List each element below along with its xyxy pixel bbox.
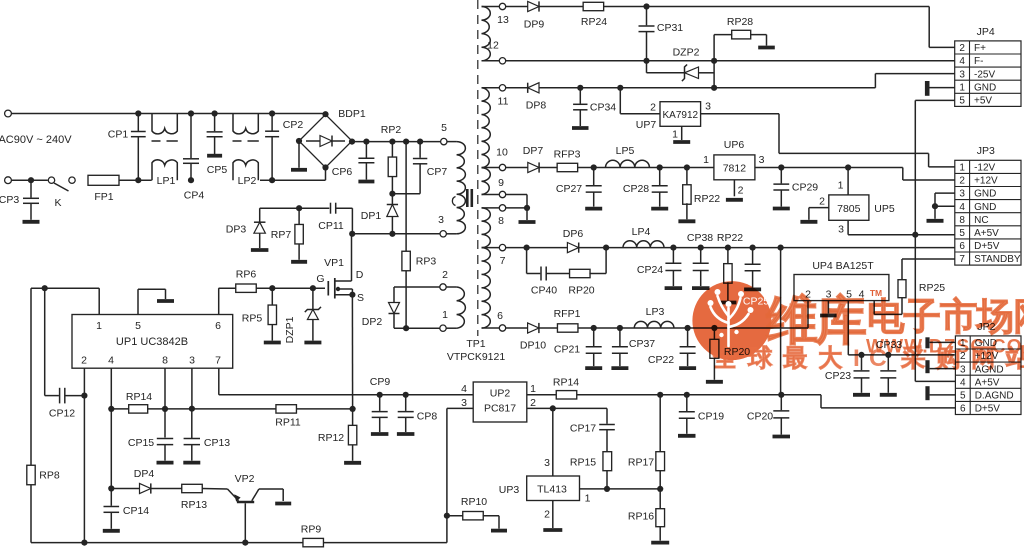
svg-text:CP19: CP19 [698,411,724,423]
wire FP1 to LP1 [119,179,152,181]
svg-text:1: 1 [672,129,678,141]
svg-text:VP1: VP1 [324,257,344,269]
svg-text:3: 3 [189,355,195,367]
svg-text:CP24: CP24 [637,264,663,276]
fuse FP1 [88,175,119,185]
resistor RFP3 [557,163,578,171]
terminal TP1 pin 9 [499,191,505,197]
svg-text:CP1: CP1 [108,129,129,141]
ground pin5 [157,299,174,303]
svg-text:RP11: RP11 [275,417,301,429]
svg-text:CP29: CP29 [792,182,818,194]
inductor LP2 common-mode choke [233,114,258,134]
svg-text:9: 9 [498,177,504,189]
node CP3/neutral junction [28,177,34,183]
wire UP4 pin5 to +5V net [847,301,849,355]
svg-text:6: 6 [959,241,965,252]
capacitor CP20 [780,395,782,410]
svg-text:AC90V ~ 240V: AC90V ~ 240V [0,134,72,146]
ground CP28 [651,207,668,211]
node VP1 source [349,292,355,298]
svg-text:STANDBY: STANDBY [974,254,1021,265]
svg-text:3: 3 [544,457,550,469]
ground CP13 [183,461,200,465]
wire pin5 ground [137,289,139,314]
ic UP1 UC3842B [72,315,233,369]
transformer TP1 secondary winding 8-7-6 [482,208,491,248]
wire DP2 to pin1 [394,327,440,329]
svg-text:CP23: CP23 [825,370,851,382]
svg-text:2: 2 [738,185,744,197]
svg-text:LP4: LP4 [632,226,651,238]
node vcc/CP12 [42,285,48,291]
capacitor CP38 [700,248,702,263]
wire pin10 rail [506,167,714,169]
node DP1 top [389,191,395,197]
ground CP19 [678,434,696,438]
svg-text:CP15: CP15 [128,437,154,449]
ground RP12 [344,461,361,465]
ground CP23 [853,393,870,397]
diode DP9 [528,1,539,11]
svg-text:6: 6 [497,310,503,322]
resistor RP5 [271,288,273,305]
mosfet VP1 [327,281,329,296]
wire bottom rail [31,542,303,544]
node RP22b [725,245,731,251]
svg-text:4: 4 [960,377,966,388]
svg-text:RP6: RP6 [236,269,257,281]
svg-text:UP3: UP3 [499,484,520,496]
node CP22 [685,325,691,331]
svg-text:JP4: JP4 [977,26,995,38]
node pin4 row [108,406,114,412]
svg-text:LP2: LP2 [238,175,257,187]
wire snubber row DP3/RP7/CP11 [260,207,330,209]
svg-text:RP16: RP16 [628,511,654,523]
svg-text:11: 11 [498,96,509,108]
svg-text:3: 3 [960,364,966,375]
svg-text:CP34: CP34 [590,102,616,114]
svg-text:RP15: RP15 [570,457,596,469]
svg-text:2: 2 [81,355,87,367]
svg-text:13: 13 [497,14,509,26]
node bus x406 [403,139,409,145]
ground bridge left corner [298,141,300,168]
wire UP2 pin2 [527,407,607,409]
node RP22 top [684,164,690,170]
svg-text:CP38: CP38 [687,232,713,244]
ground VP2 collector [275,502,291,506]
wire JP3 gnd rows 3-4 [935,192,955,194]
svg-text:DP1: DP1 [361,210,382,222]
transformer TP1 primary winding 5-3 [446,141,456,143]
node CP25 [750,245,756,251]
svg-text:DP3: DP3 [226,224,247,236]
watermark text dianzishichangwang [870,298,904,333]
wire +5V vertical [914,100,916,381]
wire UP5 pin3 output [847,220,849,234]
wire standby to JP3 [902,258,955,260]
svg-text:8: 8 [162,355,168,367]
wire RP3 branch [405,142,407,251]
node JP3 gnd [932,203,938,209]
zener DZP2 [646,61,648,73]
svg-text:DP10: DP10 [520,340,546,352]
node top rail CP2 [269,110,275,116]
wire pin2 to DP2 [394,286,440,288]
wire JP4 GND [930,87,955,89]
ground RP10 [491,529,507,533]
ground CP38 [692,286,710,290]
svg-text:D+5V: D+5V [974,241,1000,252]
terminal TP1 pin 13 [499,3,505,9]
svg-text:DZP1: DZP1 [284,316,296,343]
svg-text:CP37: CP37 [629,338,655,350]
zener DZP1 [312,288,314,309]
wire VP1 source down [351,295,353,409]
svg-text:+5V: +5V [974,95,992,106]
node pin3 row [189,406,195,412]
svg-text:CP28: CP28 [623,183,649,195]
wire D+5V jog to JP2 [820,395,822,408]
svg-text:RP20: RP20 [568,285,594,297]
svg-text:CP4: CP4 [184,190,205,202]
svg-text:3: 3 [959,69,965,80]
svg-text:-25V: -25V [974,69,995,80]
capacitor CP28 [659,168,661,186]
svg-text:5: 5 [135,320,141,332]
wire pin3 down [191,368,193,409]
watermark logo tree [711,296,749,346]
svg-text:8: 8 [959,215,965,226]
svg-text:CP27: CP27 [556,183,582,195]
svg-text:1: 1 [585,493,591,505]
node RP10 [444,513,450,519]
svg-text:CP6: CP6 [332,166,353,178]
svg-text:7805: 7805 [837,203,861,215]
diode DP8 [528,83,539,93]
wire snubber node y194 [392,193,420,195]
node top rail CP1 [135,110,141,116]
resistor RP28 [732,30,751,39]
capacitor CP33 [887,355,889,370]
ground UP4 pin3 [820,314,837,318]
svg-text:6: 6 [960,404,966,415]
svg-text:RFP1: RFP1 [554,308,581,320]
ground CP5 [207,154,222,158]
capacitor CP9 [379,395,381,411]
svg-text:7812: 7812 [723,163,747,175]
capacitor CP11 [330,203,332,214]
svg-text:5: 5 [959,228,965,239]
capacitor CP22 [687,328,689,346]
wire pin7 down feedback rail [218,368,220,395]
svg-text:VTPCK9121: VTPCK9121 [447,351,506,363]
wire pin6 rail [506,327,808,329]
wire UP6 output [755,167,903,169]
ground CP27 [585,207,602,211]
svg-text:RP5: RP5 [242,313,263,325]
resistor RP7 [298,208,300,225]
svg-text:DP8: DP8 [526,100,547,112]
svg-text:DZP2: DZP2 [673,47,700,59]
terminal TP1 pin 1 [440,325,446,331]
svg-text:RP7: RP7 [271,229,292,241]
svg-text:2: 2 [442,269,448,281]
node snubber right [603,245,609,251]
node RP15 bottom [604,486,610,492]
wire F+ drop to JP4 [928,7,930,48]
ground CP8 [397,432,415,436]
ground CP25 [744,287,761,291]
node CP7 on bus [417,139,423,145]
svg-text:DP9: DP9 [524,19,545,31]
svg-text:RP28: RP28 [727,16,753,28]
svg-text:GND: GND [974,82,996,93]
svg-text:UP7: UP7 [636,119,657,131]
node CP37 [617,325,623,331]
svg-text:10: 10 [496,147,508,159]
svg-text:CP9: CP9 [370,376,391,388]
ground CP37 [611,366,628,370]
wire gate row [219,287,325,289]
resistor RP15 [603,452,612,471]
svg-text:4: 4 [461,383,467,395]
resistor RP22 secondary [727,248,729,265]
svg-text:2: 2 [530,397,536,409]
capacitor CP25 [752,248,754,264]
node CP31 top [643,3,649,9]
diode DP7 [528,162,539,172]
node CP9 [377,392,383,398]
optocoupler UP2 PC817 [473,382,527,422]
capacitor CP12 [44,288,46,395]
svg-text:CP25: CP25 [743,296,769,308]
wire CP40/RP20 bypass [526,248,528,274]
ground CP33 [880,393,897,397]
ground CP21 [585,366,602,370]
watermark logo circle [692,281,771,360]
ic UP7 KA7912 [660,102,701,127]
svg-text:DP7: DP7 [523,145,544,157]
svg-text:RP2: RP2 [381,124,402,136]
svg-text:CP3: CP3 [0,194,19,206]
node CP21 [591,325,597,331]
node pin8 tap [524,205,530,211]
svg-text:G: G [316,273,324,285]
ground CP9 [371,432,389,436]
svg-text:LP1: LP1 [157,175,176,187]
svg-text:UP2: UP2 [490,388,511,400]
transformer TP1 phasing arc [452,197,455,206]
resistor RFP1 [557,324,578,332]
svg-text:CP2: CP2 [283,119,304,131]
svg-text:RP22: RP22 [694,193,720,205]
capacitor CP17 [606,408,608,423]
wire UP3 pin2 ground [552,501,554,529]
node bridge top corner [322,111,328,117]
svg-text:RP8: RP8 [39,470,60,482]
node bridge left corner [296,138,302,144]
svg-text:RFP3: RFP3 [554,149,581,161]
node CP38 [698,245,704,251]
ground DP3 [251,248,269,252]
svg-text:S: S [357,292,364,304]
resistor RP6 [236,284,257,292]
node source/RP12 [350,406,356,412]
svg-text:7: 7 [215,355,221,367]
resistor RP14 [129,405,148,413]
terminal TP1 pin 12 [499,58,505,64]
node CP29 [778,164,784,170]
svg-text:BDP1: BDP1 [338,108,366,120]
resistor RP11 [276,405,297,413]
node pin2 rail [81,540,87,546]
resistor RP16 [659,489,661,509]
svg-text:4: 4 [959,56,965,67]
svg-text:1: 1 [703,154,709,166]
capacitor CP21 [593,328,595,346]
capacitor CP2 [265,130,279,132]
svg-text:CP21: CP21 [554,344,580,356]
resistor RP3 [402,251,410,271]
svg-text:7: 7 [500,255,506,267]
wire UP2 pin3 column [446,408,448,542]
svg-text:D.AGND: D.AGND [975,390,1014,401]
capacitor CP6 [365,142,367,158]
terminal TP1 pin 6 [499,325,505,331]
node CP19 [684,392,690,398]
svg-text:RP22: RP22 [717,232,743,244]
wire left column RP8 [30,288,32,542]
capacitor CP31 [646,7,648,26]
svg-text:5: 5 [959,95,965,106]
terminal TP1 pin 10 [499,164,505,170]
wire UP7 pin3 -12V [701,113,779,115]
svg-text:4: 4 [959,202,965,213]
terminal AC neutral [5,177,12,184]
svg-text:F+: F+ [974,43,986,54]
svg-text:RP9: RP9 [301,524,322,536]
watermark logo tree dots [708,300,714,306]
node RP17 bottom [657,486,663,492]
ic UP6 7812 [714,155,755,180]
svg-text:CP20: CP20 [747,411,773,423]
svg-text:3: 3 [959,189,965,200]
wire UP3 pin1 [580,488,661,490]
svg-text:CP12: CP12 [49,408,75,420]
terminal AC live [5,110,12,117]
svg-text:D: D [356,269,364,281]
transformer TP1 secondary winding 11-10-9 [482,88,491,195]
wire AC neutral bottom rail left [11,179,47,181]
ground CP24 [665,286,683,290]
bridge rectifier BDP1 [299,115,352,168]
node RP2 on bus [389,139,395,145]
node VP2 rail [242,540,248,546]
node top rail CP5 [212,110,218,116]
ic UP4 BA125T [794,275,889,301]
transformer TP1 core bars [466,189,469,207]
svg-text:RP25: RP25 [919,282,945,294]
terminal TP1 pin 3 [440,231,446,237]
svg-text:+12V: +12V [974,176,998,187]
node CP23 [858,352,864,358]
wire UP5 pin2 ground [809,207,829,209]
svg-text:3: 3 [705,101,711,113]
diode DP4 [111,488,139,490]
resistor RP20 secondary [713,328,715,339]
svg-text:RP14: RP14 [553,377,579,389]
wire vcc row [31,287,99,289]
svg-text:FP1: FP1 [94,191,113,203]
node CP27 [591,164,597,170]
svg-text:KA7912: KA7912 [663,110,699,121]
ground UP7 [673,140,690,144]
svg-text:2: 2 [959,43,965,54]
wire AC live top rail [11,113,325,115]
svg-text:CP17: CP17 [570,423,596,435]
svg-text:12: 12 [487,40,499,52]
switch K [48,177,54,183]
wire pin6 up to gate drive [218,288,220,314]
ground DZP1 [304,341,321,345]
ground CP15 [157,461,174,465]
transformer TP1 secondary winding 13-12 [482,7,491,61]
resistor RP17 [659,395,661,452]
node TL413 ref [550,405,556,411]
inductor LP4 [623,241,664,248]
wire JP2 GND [930,341,956,343]
inductor LP1 common-mode choke [152,114,177,134]
capacitor CP34 [579,88,581,104]
ic UP3 TL413 [552,408,554,476]
watermark text quanqiu [713,346,736,368]
wire UP2 pin3 [447,407,473,409]
svg-text:1: 1 [959,82,965,93]
svg-text:2: 2 [544,509,550,521]
ground RP22 secondary [719,301,736,305]
wire UP2 pin1 rail [527,394,557,396]
svg-text:CP40: CP40 [531,285,557,297]
transformer TP1 primary winding 2-1 [446,286,456,288]
ground CP20 [773,435,791,439]
svg-text:RP14: RP14 [126,391,152,403]
resistor RP20 [570,269,591,277]
wire pwm row y409 [111,408,352,410]
resistor RP10 [447,515,463,517]
svg-text:UP5: UP5 [874,203,895,215]
wire -25V jog to JP4 [874,74,876,88]
ground RP22 [678,219,695,223]
svg-text:I: I [853,345,860,372]
ground CP14 [103,529,120,533]
watermark text weiku [767,294,816,344]
wire pin1 up [98,288,100,314]
terminal TP1 pin 7 [499,244,505,250]
diode DP1 [391,194,393,205]
capacitor CP40 [540,267,542,281]
node UP4 feed [778,245,784,251]
node DZP1 top [310,285,316,291]
svg-text:RP24: RP24 [581,16,607,28]
inductor LP3 [634,321,674,328]
svg-text:CP31: CP31 [657,22,683,34]
ground CP22 [679,366,696,370]
node drain/CP11 [349,231,355,237]
node CP24 [670,245,676,251]
